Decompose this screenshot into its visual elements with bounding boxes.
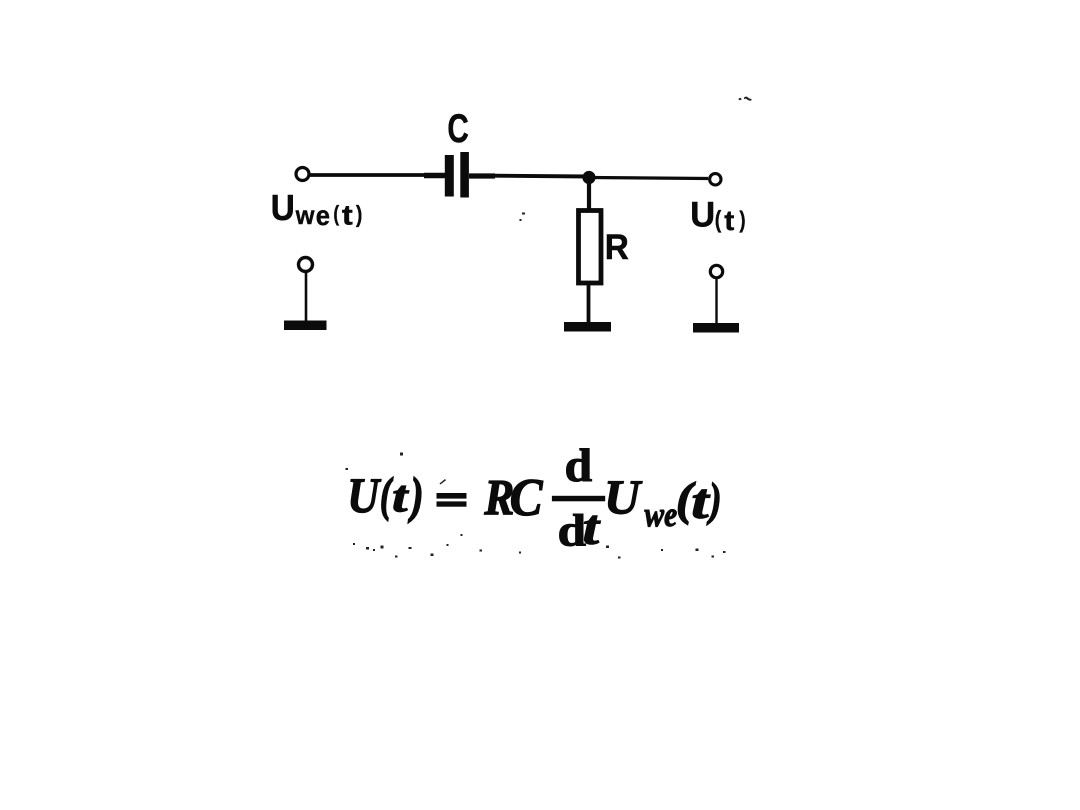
svg-text:e: e — [316, 200, 330, 231]
svg-text:(: ( — [715, 205, 722, 232]
svg-text:we: we — [645, 495, 678, 534]
svg-text:t: t — [691, 475, 711, 530]
svg-text:U: U — [690, 195, 715, 235]
svg-text:): ) — [356, 200, 362, 227]
svg-text:C: C — [447, 107, 468, 151]
svg-text:C: C — [510, 468, 544, 527]
svg-text:): ) — [739, 208, 745, 233]
svg-text:t: t — [342, 201, 353, 231]
svg-text:t: t — [724, 206, 734, 236]
svg-text:t: t — [583, 499, 601, 555]
svg-text:(: ( — [333, 202, 339, 227]
svg-text:U: U — [604, 470, 642, 524]
svg-text:w: w — [295, 201, 315, 230]
svg-text:U: U — [271, 189, 295, 228]
svg-text:R: R — [605, 228, 629, 267]
svg-text:t: t — [392, 471, 410, 521]
svg-text:U: U — [347, 469, 381, 524]
svg-text:d: d — [565, 440, 593, 491]
